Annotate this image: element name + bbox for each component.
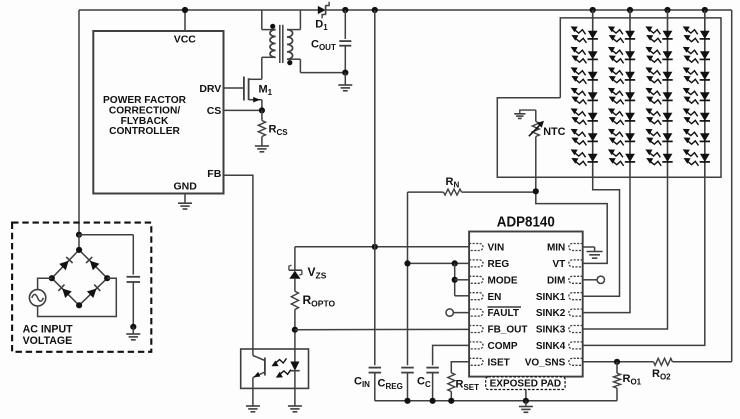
svg-text:VT: VT <box>553 259 566 270</box>
svg-text:CREG: CREG <box>378 378 403 392</box>
svg-text:CS: CS <box>207 105 222 117</box>
svg-text:RCS: RCS <box>269 124 289 138</box>
svg-text:SINK3: SINK3 <box>536 325 566 336</box>
svg-text:M1: M1 <box>259 84 273 98</box>
svg-text:NTC: NTC <box>543 126 565 138</box>
svg-text:RSET: RSET <box>456 379 480 393</box>
svg-text:MODE: MODE <box>488 275 518 286</box>
svg-text:CONTROLLER: CONTROLLER <box>109 126 180 137</box>
svg-text:RN: RN <box>446 176 460 190</box>
svg-text:COMP: COMP <box>488 341 518 352</box>
svg-text:SINK2: SINK2 <box>536 308 566 319</box>
svg-text:CC: CC <box>417 376 431 390</box>
svg-text:REG: REG <box>488 259 510 270</box>
svg-text:ADP8140: ADP8140 <box>497 213 555 230</box>
svg-text:VIN: VIN <box>488 243 505 254</box>
svg-text:FB_OUT: FB_OUT <box>488 325 528 336</box>
svg-text:SINK4: SINK4 <box>536 341 566 352</box>
svg-text:CIN: CIN <box>354 376 370 390</box>
svg-text:GND: GND <box>174 180 198 192</box>
svg-text:RO1: RO1 <box>623 373 642 387</box>
svg-text:ROPTO: ROPTO <box>303 293 336 309</box>
svg-text:DRV: DRV <box>199 83 221 95</box>
svg-text:ISET: ISET <box>488 357 510 368</box>
svg-text:DIM: DIM <box>547 275 565 286</box>
svg-text:SINK1: SINK1 <box>536 292 566 303</box>
svg-text:FAULT: FAULT <box>488 308 519 319</box>
svg-text:AC INPUT: AC INPUT <box>23 323 74 335</box>
svg-text:FB: FB <box>207 168 221 180</box>
svg-text:RO2: RO2 <box>652 368 671 382</box>
svg-text:VOLTAGE: VOLTAGE <box>23 335 73 347</box>
svg-text:MIN: MIN <box>547 243 565 254</box>
svg-text:EN: EN <box>488 292 502 303</box>
svg-text:D1: D1 <box>315 19 328 33</box>
svg-text:COUT: COUT <box>311 39 336 53</box>
svg-text:EXPOSED PAD: EXPOSED PAD <box>490 379 562 390</box>
svg-text:VCC: VCC <box>174 34 197 46</box>
svg-text:VO_SNS: VO_SNS <box>525 357 566 368</box>
svg-text:VZS: VZS <box>308 265 327 281</box>
